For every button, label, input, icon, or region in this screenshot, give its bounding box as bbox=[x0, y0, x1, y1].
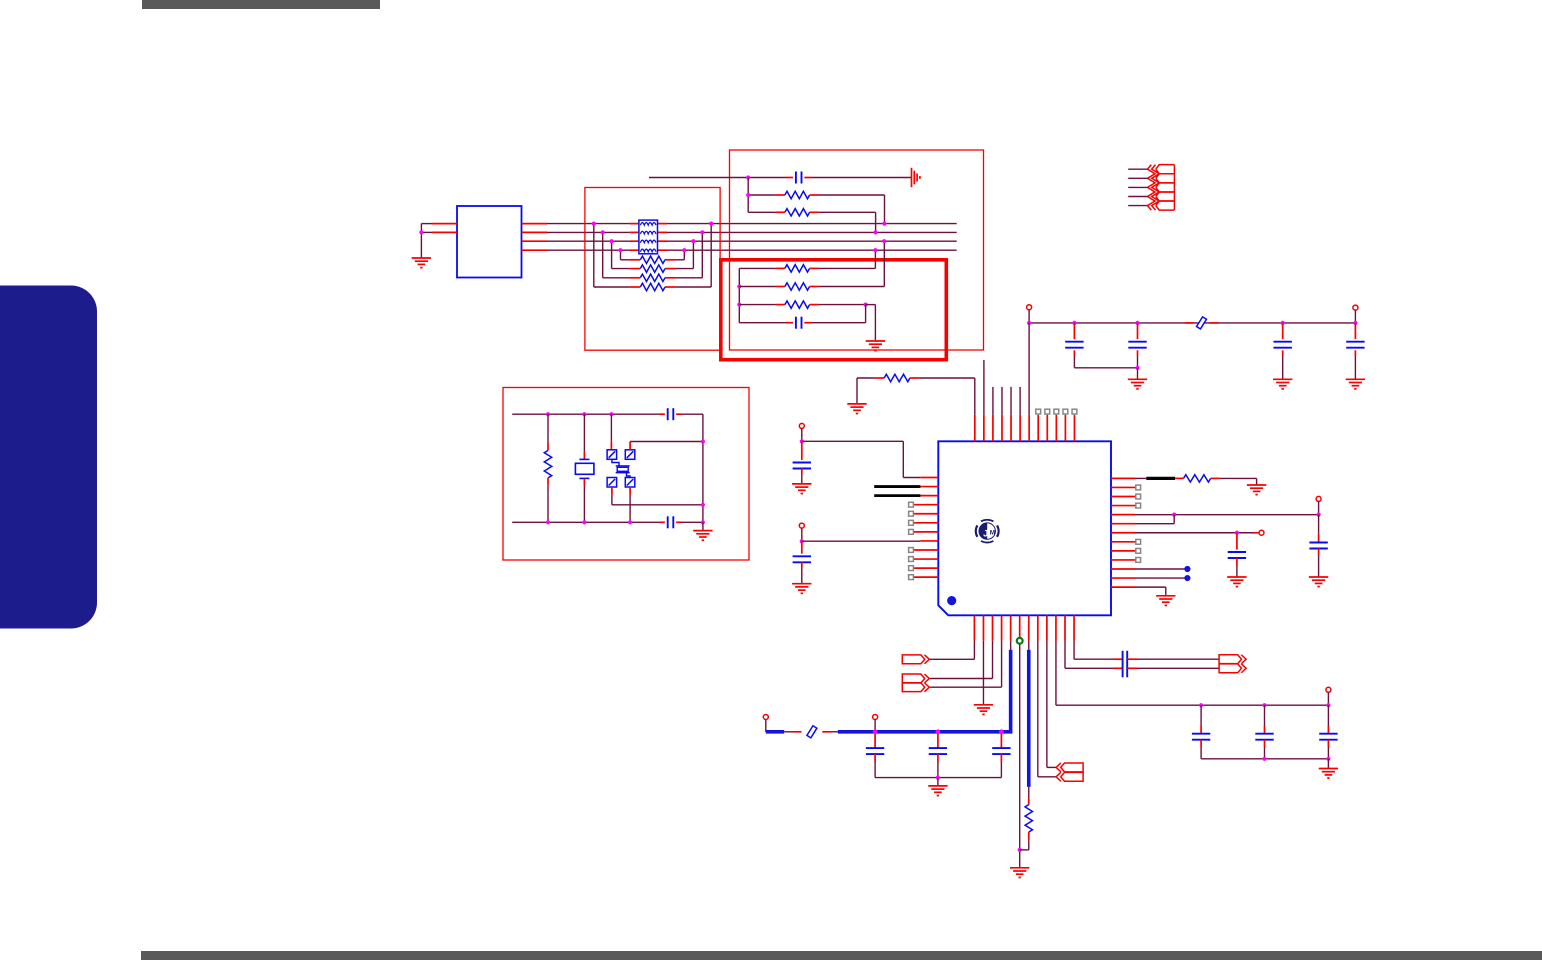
junction at J1 ground bbox=[419, 230, 423, 234]
black bar net 1 bbox=[874, 485, 920, 488]
ground (blue rail) bbox=[928, 786, 947, 796]
wire resonator bottom-left bbox=[611, 487, 613, 495]
ferrite bead FB1 bbox=[1185, 322, 1194, 324]
wire to ground bbox=[866, 304, 876, 306]
wire U1 top pin 2 bbox=[983, 360, 985, 415]
capacitor C3 bbox=[1072, 321, 1076, 325]
no-connect net dots bbox=[1135, 568, 1185, 570]
capacitor C13 (dual series) bbox=[1073, 641, 1075, 659]
resistor R8 (to U1 top) bbox=[857, 377, 875, 379]
resistor R2 bbox=[748, 194, 776, 196]
blue rail cap bottom wire bbox=[875, 777, 1001, 779]
U1 pin1 mark bbox=[947, 596, 956, 605]
wire R8 to ground bbox=[856, 378, 858, 404]
resistor R11 (bus 1 parallel) bbox=[640, 283, 665, 290]
crystal Y1 bbox=[583, 414, 585, 452]
left navy tab bbox=[0, 286, 97, 629]
power rail wire bbox=[1029, 322, 1355, 324]
bottom footer bar bbox=[141, 951, 1542, 960]
capacitor C5 bbox=[1281, 321, 1285, 325]
resistor R4 bbox=[739, 267, 776, 269]
wire to off-page OP2b bbox=[1001, 641, 1003, 687]
ground (C9) bbox=[792, 484, 811, 494]
capacitor C19 bbox=[1000, 734, 1002, 748]
ground (C10) bbox=[792, 584, 811, 594]
wire to off-page OP3b bbox=[1037, 641, 1039, 777]
bus wires (4 lines) left of RP1 bbox=[547, 223, 629, 225]
test point TP1 (green) bbox=[1017, 638, 1023, 644]
resistor R3 bbox=[748, 211, 776, 213]
connector J1 bbox=[457, 206, 522, 278]
capacitor C4 bbox=[1135, 321, 1139, 325]
capacitor C8 bbox=[668, 516, 674, 528]
wire bbox=[611, 241, 613, 268]
box: filter section bbox=[730, 150, 984, 350]
wire R5 to bus3 bbox=[819, 286, 885, 288]
wire U1 pin 13 to ground bbox=[1135, 586, 1166, 588]
NC squares U1 left bbox=[909, 502, 914, 579]
power pin P8 bbox=[763, 715, 768, 720]
wire to off-page OP3a bbox=[1046, 641, 1048, 768]
thick trace (blue) pin7 bbox=[1028, 641, 1030, 650]
wire R6 right bbox=[819, 304, 866, 306]
resistor R6 bbox=[739, 304, 776, 306]
capacitor C11 bbox=[1318, 515, 1320, 534]
junction dots bbox=[618, 248, 622, 252]
ground (R9) bbox=[1247, 485, 1266, 495]
wire TP1 to ground bbox=[1019, 644, 1021, 868]
ground (thick box) bbox=[866, 341, 885, 351]
capacitor C16 bbox=[1327, 705, 1329, 726]
junction dots bbox=[610, 239, 614, 243]
U1 logo bbox=[976, 520, 999, 543]
svg-text:M: M bbox=[990, 530, 995, 537]
power pin P2 bbox=[1353, 305, 1358, 310]
chassis ground (right) bbox=[912, 168, 920, 187]
power pin P9 bbox=[873, 715, 878, 720]
wire to off-page OP2a bbox=[992, 641, 994, 679]
resonator Y2 (4 pads) bbox=[610, 414, 612, 442]
wire to off-page OP1 bbox=[973, 641, 975, 660]
ground (cap bank) bbox=[1319, 769, 1338, 779]
resonator core bbox=[612, 459, 630, 477]
wire OP4b bbox=[1064, 641, 1066, 669]
NC squares U1 top pins 8-12 bbox=[1036, 409, 1077, 414]
cap bank bottom wire bbox=[1201, 758, 1328, 760]
power pin P6 bbox=[1254, 532, 1259, 534]
bus wires (4 lines) right of RP1 bbox=[667, 223, 957, 225]
resistor R5 bbox=[739, 286, 776, 288]
top osc wire bbox=[512, 413, 659, 415]
power pin P5 bbox=[1316, 496, 1321, 501]
box: highlighted termination (thick) bbox=[721, 260, 947, 360]
black bar net 2 bbox=[874, 494, 920, 497]
power pin P7 bbox=[1326, 687, 1331, 692]
power pin P1 bbox=[1027, 305, 1032, 310]
capacitor C2 bbox=[739, 322, 786, 324]
box: crystal oscillator bbox=[503, 388, 749, 561]
capacitor C14 bbox=[1200, 705, 1202, 726]
capacitor C12 bbox=[1236, 533, 1238, 550]
off-page connector OP4 (dual) bbox=[1219, 655, 1246, 664]
capacitor C9 bbox=[801, 441, 803, 460]
svg-text:J: J bbox=[983, 528, 988, 539]
off-page connector OP3 (dual) bbox=[1056, 763, 1083, 772]
ground (TP1) bbox=[1010, 868, 1029, 878]
capacitor C7 bbox=[668, 408, 674, 420]
ground (C4) bbox=[1128, 379, 1147, 389]
wire bbox=[620, 250, 622, 260]
wire U1 to cap bank bbox=[1055, 641, 1057, 705]
resistor pack RP1 bbox=[639, 220, 658, 254]
wire bbox=[747, 178, 749, 213]
black bar net 3 bbox=[1135, 477, 1146, 479]
resistor R7 bbox=[547, 414, 549, 443]
wire resonator bottom-right bbox=[629, 487, 631, 495]
ground (J1) bbox=[412, 258, 431, 268]
NC squares U1 right bbox=[1136, 485, 1141, 562]
ground (C11) bbox=[1309, 577, 1328, 587]
pin stubs left of J1 bbox=[432, 223, 457, 225]
wire P4 to U1 bbox=[802, 540, 921, 542]
capacitor C6 bbox=[1354, 323, 1356, 339]
thick power trace left bbox=[766, 730, 784, 734]
capacitor C15 bbox=[1264, 705, 1266, 726]
net flags (5 bus taps) bbox=[1148, 165, 1175, 211]
off-page connector OP2 (dual) bbox=[902, 674, 929, 683]
U1 right pin stubs bbox=[1111, 478, 1136, 587]
wire U1 pin net A bbox=[1135, 514, 1319, 516]
ground (R8) bbox=[847, 404, 866, 414]
ground (C12) bbox=[1227, 577, 1246, 587]
junction bbox=[746, 175, 750, 179]
wire rail to U1 pin bbox=[1028, 323, 1030, 415]
ground (U1 bottom) bbox=[974, 705, 993, 715]
resistor R9 bbox=[1175, 477, 1184, 479]
wire to ground from J1 bbox=[421, 223, 432, 225]
RP1 pin stubs bbox=[629, 223, 639, 225]
wires U1 top pins 3-6 bbox=[993, 387, 1020, 415]
wire P3 to U1 bbox=[802, 440, 904, 442]
U1 bottom pin stubs bbox=[974, 615, 1074, 641]
pin stubs right of J1 bbox=[522, 223, 548, 225]
wire resonator top-right bbox=[629, 442, 631, 450]
wire left rail in thick box bbox=[738, 268, 740, 322]
ferrite bead FB2 bbox=[784, 731, 793, 733]
U1 top pin stubs bbox=[975, 415, 1075, 442]
junction dots bbox=[592, 222, 596, 226]
top header bar bbox=[142, 0, 380, 9]
right osc rail bbox=[702, 414, 704, 522]
ground (osc) bbox=[702, 522, 704, 530]
bottom osc wire bbox=[512, 521, 659, 523]
wire bbox=[602, 232, 604, 277]
wire R4 to bus4 bbox=[819, 267, 876, 269]
ground (C6) bbox=[1346, 379, 1365, 389]
resistor R10 bbox=[1028, 787, 1030, 798]
power pin P4 bbox=[799, 523, 804, 528]
IC U1 bbox=[938, 441, 1111, 615]
capacitor C17 bbox=[874, 734, 876, 748]
resistor R14 (bus 4 parallel) bbox=[640, 256, 665, 263]
wire U1 pin net B bbox=[1135, 532, 1254, 534]
flag stub wires bbox=[1128, 168, 1147, 170]
off-page connector OP1 bbox=[902, 655, 929, 664]
ground (C5) bbox=[1273, 379, 1292, 389]
box: termination section bbox=[585, 188, 720, 351]
wire bbox=[593, 224, 595, 287]
wire (cap net) bbox=[649, 177, 786, 179]
resistor R13 (bus 3 parallel) bbox=[640, 265, 665, 272]
thick power trace (blue) bbox=[1010, 641, 1012, 650]
U1 left pin stubs bbox=[913, 478, 938, 578]
capacitor C1 bbox=[796, 172, 802, 184]
capacitor C10 bbox=[801, 541, 803, 554]
ground (U1 right) bbox=[1156, 596, 1175, 606]
power pin P3 bbox=[799, 423, 804, 428]
junction dots bbox=[601, 230, 605, 234]
resistor R12 (bus 2 parallel) bbox=[640, 274, 665, 281]
wire U1 pin to ground bbox=[982, 641, 984, 705]
capacitor C18 bbox=[937, 734, 939, 748]
